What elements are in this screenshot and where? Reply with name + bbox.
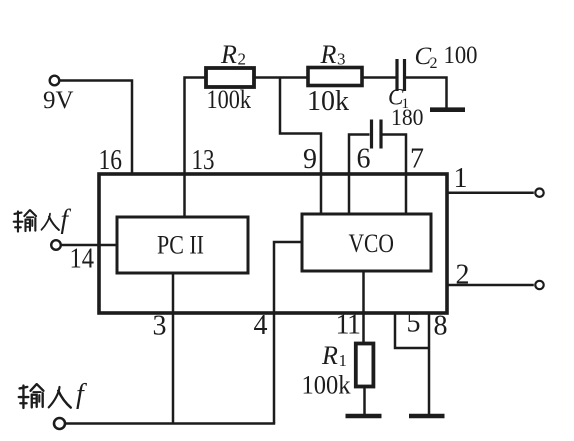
svg-text:7: 7 (410, 144, 424, 175)
svg-text:1: 1 (339, 351, 348, 370)
svg-text:6: 6 (357, 144, 371, 175)
svg-text:3: 3 (337, 50, 346, 69)
svg-text:3: 3 (153, 311, 167, 342)
svg-text:VCO: VCO (349, 229, 395, 258)
svg-text:R: R (320, 40, 337, 69)
svg-text:8: 8 (434, 311, 448, 342)
svg-text:100: 100 (444, 42, 478, 69)
svg-text:9V: 9V (43, 87, 74, 114)
svg-text:R: R (321, 341, 338, 370)
svg-text:9: 9 (303, 144, 317, 175)
svg-text:16: 16 (99, 145, 123, 176)
svg-text:5: 5 (407, 308, 421, 339)
svg-text:R: R (220, 40, 237, 69)
svg-text:2: 2 (238, 50, 247, 69)
svg-text:100k: 100k (207, 85, 252, 114)
svg-text:180: 180 (391, 105, 424, 130)
svg-text:PC II: PC II (157, 231, 204, 260)
svg-text:2: 2 (456, 260, 470, 291)
svg-text:14: 14 (70, 244, 95, 275)
svg-text:13: 13 (192, 145, 215, 176)
svg-text:1: 1 (454, 163, 468, 194)
svg-text:1: 1 (347, 310, 361, 341)
svg-text:2: 2 (430, 55, 438, 72)
svg-text:10k: 10k (307, 86, 349, 117)
svg-text:100k: 100k (302, 371, 351, 400)
svg-text:4: 4 (254, 310, 268, 341)
